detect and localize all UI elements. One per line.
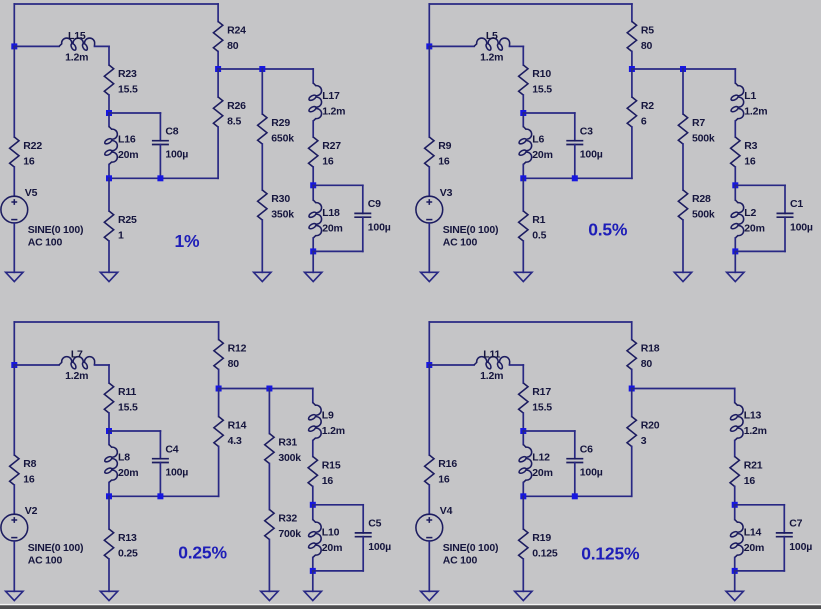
svg-text:100µ: 100µ (789, 541, 812, 553)
inductor L10 (309, 520, 322, 558)
svg-text:16: 16 (744, 155, 756, 167)
junction (216, 386, 222, 392)
svg-text:16: 16 (322, 475, 334, 487)
junction (215, 66, 221, 72)
ground (100, 591, 117, 600)
resistor R26 (213, 97, 222, 127)
wire (522, 46, 524, 65)
wire (734, 505, 736, 520)
svg-text:L11: L11 (483, 348, 500, 360)
svg-text:100µ: 100µ (580, 149, 603, 161)
wire (682, 69, 684, 114)
svg-text:1.2m: 1.2m (480, 52, 503, 64)
wire (362, 185, 364, 213)
svg-text:R10: R10 (532, 68, 551, 80)
svg-text:16: 16 (744, 475, 756, 487)
wire (574, 463, 576, 497)
wire (522, 365, 524, 383)
junction (310, 182, 316, 188)
svg-text:0.5: 0.5 (532, 229, 546, 241)
svg-text:350k: 350k (271, 208, 294, 220)
inductor L13 (730, 403, 743, 441)
inductor L9 (309, 403, 322, 441)
svg-text:1.2m: 1.2m (480, 370, 503, 382)
resistor R3 (731, 137, 740, 167)
svg-text:15.5: 15.5 (118, 401, 138, 413)
svg-text:15.5: 15.5 (532, 83, 552, 95)
wire (312, 69, 314, 83)
wire (159, 113, 161, 141)
svg-text:R28: R28 (692, 193, 711, 205)
svg-text:R15: R15 (322, 459, 341, 471)
svg-text:300k: 300k (278, 452, 301, 464)
wire (14, 45, 59, 47)
ground (254, 272, 271, 281)
wire (217, 52, 219, 70)
svg-text:80: 80 (227, 40, 239, 52)
wire (108, 113, 110, 127)
inductor L7 (59, 357, 95, 369)
capacitor C4 (152, 459, 169, 463)
svg-text:C7: C7 (789, 518, 802, 530)
wire (218, 370, 220, 389)
svg-text:R3: R3 (744, 140, 757, 152)
wire (784, 217, 786, 251)
wire (109, 430, 160, 432)
svg-text:C8: C8 (165, 125, 178, 137)
inductor L11 (474, 357, 510, 369)
svg-text:20m: 20m (118, 149, 138, 161)
wire (784, 185, 786, 213)
svg-text:C4: C4 (165, 443, 178, 455)
svg-text:V2: V2 (25, 505, 38, 517)
ground (6, 272, 23, 281)
inductor L18 (309, 200, 322, 238)
svg-text:C6: C6 (580, 443, 593, 455)
svg-text:R26: R26 (227, 100, 246, 112)
wire (313, 570, 363, 572)
wire (13, 46, 15, 137)
junction (629, 66, 635, 72)
junction (259, 66, 265, 72)
wire (14, 321, 218, 323)
wire (13, 223, 15, 272)
resistor R1 (519, 211, 528, 241)
voltage source V5 (1, 196, 28, 223)
resistor R19 (519, 529, 528, 559)
wire (217, 127, 219, 178)
resistor R8 (10, 455, 19, 485)
wire (108, 241, 110, 272)
resistor R17 (519, 383, 528, 413)
resistor R13 (104, 529, 113, 559)
inductor L1 (731, 83, 744, 121)
wire (428, 167, 430, 196)
wire (631, 370, 633, 389)
wire (108, 165, 110, 179)
capacitor C5 (355, 533, 372, 537)
wire (13, 541, 15, 591)
junction (157, 493, 163, 499)
svg-text:L6: L6 (532, 134, 544, 146)
svg-text:V4: V4 (440, 505, 453, 517)
junction (732, 568, 738, 574)
wire (734, 441, 736, 457)
wire (574, 431, 576, 459)
svg-text:16: 16 (438, 155, 450, 167)
svg-text:R16: R16 (438, 458, 457, 470)
ground (261, 591, 278, 600)
svg-text:AC 100: AC 100 (443, 555, 478, 567)
svg-text:500k: 500k (692, 132, 715, 144)
resistor R11 (104, 383, 113, 413)
svg-text:1%: 1% (175, 231, 201, 251)
resistor R22 (10, 137, 19, 167)
wire (735, 184, 785, 186)
wire (510, 45, 524, 47)
wire (522, 483, 524, 497)
wire (108, 483, 110, 497)
inductor L14 (730, 520, 743, 558)
wire (219, 388, 313, 390)
wire (218, 68, 313, 70)
capacitor C6 (566, 459, 583, 463)
ground (515, 272, 532, 281)
wire (312, 487, 314, 505)
inductor L8 (105, 445, 118, 483)
svg-text:0.25%: 0.25% (178, 542, 227, 562)
svg-text:SINE(0 100): SINE(0 100) (28, 542, 84, 554)
wire (159, 145, 161, 179)
junction (106, 428, 112, 434)
svg-text:SINE(0 100): SINE(0 100) (28, 224, 84, 236)
svg-text:R5: R5 (641, 24, 654, 36)
wire (14, 364, 59, 366)
svg-text:R18: R18 (641, 342, 660, 354)
resistor R10 (519, 65, 528, 95)
resistor R31 (265, 434, 274, 464)
wire (429, 3, 632, 5)
wire (522, 431, 524, 445)
wire (108, 46, 110, 65)
wire (312, 251, 314, 272)
junction (426, 43, 432, 49)
wire (13, 365, 15, 455)
resistor R14 (214, 417, 223, 447)
junction (157, 175, 163, 181)
svg-text:20m: 20m (322, 542, 342, 554)
voltage source V3 (416, 196, 443, 223)
wire (428, 485, 430, 514)
junction (572, 493, 578, 499)
wire (312, 558, 314, 571)
wire (312, 571, 314, 591)
wire (159, 463, 161, 497)
svg-text:20m: 20m (118, 467, 138, 479)
ground (6, 591, 23, 600)
inductor L5 (474, 38, 510, 50)
wire (13, 4, 15, 46)
wire (428, 365, 430, 455)
svg-text:20m: 20m (532, 149, 552, 161)
svg-text:L2: L2 (744, 207, 756, 219)
wire (735, 250, 785, 252)
svg-text:20m: 20m (744, 223, 764, 235)
wire (312, 238, 314, 251)
wire (428, 4, 430, 46)
resistor R18 (627, 340, 636, 370)
svg-text:16: 16 (23, 473, 35, 485)
junction (310, 502, 316, 508)
capacitor C8 (152, 141, 169, 145)
svg-text:0.25: 0.25 (118, 547, 138, 559)
svg-text:0.125%: 0.125% (581, 543, 640, 563)
wire (313, 504, 363, 506)
wire (734, 69, 736, 83)
resistor R15 (308, 457, 317, 487)
wire (631, 52, 633, 70)
wire (108, 413, 110, 431)
svg-text:L13: L13 (744, 410, 762, 422)
junction (520, 110, 526, 116)
wire (522, 413, 524, 431)
wire (109, 177, 218, 179)
svg-text:100µ: 100µ (368, 541, 391, 553)
svg-text:R13: R13 (118, 532, 137, 544)
wire (734, 121, 736, 137)
junction (11, 43, 17, 49)
svg-text:R31: R31 (278, 436, 297, 448)
wire (268, 389, 270, 434)
resistor R30 (258, 190, 267, 220)
svg-text:1.2m: 1.2m (322, 425, 345, 437)
inductor L12 (519, 445, 532, 483)
svg-text:4.3: 4.3 (228, 435, 242, 447)
capacitor C9 (354, 213, 371, 217)
wire (109, 112, 160, 114)
wire (429, 364, 474, 366)
junction (106, 110, 112, 116)
capacitor C1 (777, 213, 794, 217)
wire (631, 69, 633, 97)
wire (261, 69, 263, 114)
svg-text:R22: R22 (23, 140, 42, 152)
wire (631, 4, 633, 22)
svg-text:80: 80 (641, 358, 653, 370)
wire (268, 464, 270, 510)
junction (732, 182, 738, 188)
wire (13, 322, 15, 365)
wire (783, 505, 785, 533)
wire (734, 558, 736, 571)
capacitor C7 (776, 533, 793, 537)
svg-text:1.2m: 1.2m (744, 425, 767, 437)
svg-text:650k: 650k (271, 132, 294, 144)
junction (629, 386, 635, 392)
wire (734, 251, 736, 272)
svg-text:3: 3 (641, 435, 647, 447)
wire (313, 184, 363, 186)
resistor R21 (730, 457, 739, 487)
wire (108, 496, 110, 529)
svg-text:R24: R24 (227, 24, 246, 36)
wire (631, 127, 633, 178)
wire (261, 144, 263, 190)
wire (522, 113, 524, 127)
wire (312, 121, 314, 137)
svg-text:15.5: 15.5 (118, 83, 138, 95)
svg-text:1.2m: 1.2m (65, 52, 88, 64)
wire (428, 322, 430, 365)
svg-text:R8: R8 (23, 458, 36, 470)
wire (522, 95, 524, 113)
wire (734, 185, 736, 200)
capacitor C3 (566, 141, 583, 145)
svg-text:R14: R14 (228, 419, 247, 431)
wire (312, 505, 314, 520)
svg-text:R23: R23 (118, 68, 137, 80)
svg-text:L1: L1 (744, 90, 756, 102)
svg-text:6: 6 (641, 115, 647, 127)
voltage source V2 (1, 514, 28, 541)
resistor R29 (258, 114, 267, 144)
svg-text:R17: R17 (532, 386, 551, 398)
wire (734, 167, 736, 185)
wire (428, 46, 430, 137)
wire (632, 68, 735, 70)
inductor L16 (105, 127, 118, 165)
svg-text:L8: L8 (118, 452, 130, 464)
svg-text:R12: R12 (228, 342, 247, 354)
wire (523, 177, 632, 179)
wire (428, 541, 430, 591)
svg-text:R19: R19 (532, 532, 551, 544)
junction (520, 493, 526, 499)
ground (727, 272, 744, 281)
wire (108, 559, 110, 591)
wire (217, 69, 219, 97)
svg-text:100µ: 100µ (368, 221, 391, 233)
svg-text:R29: R29 (271, 117, 290, 129)
svg-text:R1: R1 (532, 214, 545, 226)
svg-text:1.2m: 1.2m (322, 106, 345, 118)
svg-text:100µ: 100µ (580, 467, 603, 479)
svg-text:1.2m: 1.2m (65, 370, 88, 382)
ground (304, 591, 321, 600)
wire (734, 238, 736, 251)
wire (522, 165, 524, 179)
svg-text:AC 100: AC 100 (28, 555, 63, 567)
wire (313, 250, 363, 252)
junction (310, 248, 316, 254)
junction (732, 502, 738, 508)
wire (95, 364, 110, 366)
svg-text:R11: R11 (118, 386, 136, 398)
wire (312, 185, 314, 200)
wire (510, 364, 524, 366)
svg-text:80: 80 (228, 358, 240, 370)
svg-text:R25: R25 (118, 214, 137, 226)
svg-text:16: 16 (23, 155, 35, 167)
wire (522, 496, 524, 529)
svg-text:L14: L14 (744, 527, 762, 539)
wire (734, 389, 736, 403)
junction (680, 66, 686, 72)
resistor R20 (627, 417, 636, 447)
svg-text:L5: L5 (486, 30, 498, 42)
junction (572, 175, 578, 181)
wire (631, 447, 633, 497)
svg-text:R27: R27 (322, 140, 341, 152)
svg-text:C3: C3 (580, 125, 593, 137)
wire (108, 365, 110, 383)
junction (426, 362, 432, 368)
resistor R32 (265, 510, 274, 540)
junction (520, 428, 526, 434)
svg-text:1.2m: 1.2m (744, 106, 767, 118)
svg-text:C5: C5 (368, 518, 381, 530)
wire (312, 441, 314, 457)
ground (674, 272, 691, 281)
svg-text:100µ: 100µ (165, 467, 188, 479)
wire (523, 495, 631, 497)
wire (632, 388, 735, 390)
wire (312, 389, 314, 403)
wire (574, 145, 576, 179)
resistor R27 (309, 137, 318, 167)
svg-text:R32: R32 (278, 512, 297, 524)
svg-text:R2: R2 (641, 100, 654, 112)
inductor L15 (59, 38, 95, 50)
wire (217, 4, 219, 22)
svg-text:20m: 20m (744, 542, 764, 554)
svg-text:C9: C9 (368, 198, 381, 210)
wire (218, 447, 220, 497)
wire (734, 571, 736, 591)
resistor R7 (678, 114, 687, 144)
wire (682, 144, 684, 190)
svg-text:SINE(0 100): SINE(0 100) (443, 224, 499, 236)
inductor L2 (731, 200, 744, 238)
wire (429, 321, 631, 323)
junction (520, 175, 526, 181)
wire (735, 570, 785, 572)
wire (523, 112, 575, 114)
svg-text:R9: R9 (438, 140, 451, 152)
wire (108, 431, 110, 445)
svg-text:0.125: 0.125 (532, 547, 558, 559)
resistor R28 (678, 190, 687, 220)
wire (682, 220, 684, 272)
wire (95, 45, 110, 47)
junction (11, 362, 17, 368)
voltage source V4 (416, 514, 443, 541)
resistor R25 (104, 211, 113, 241)
wire (268, 540, 270, 592)
svg-text:L9: L9 (322, 410, 334, 422)
resistor R2 (627, 97, 636, 127)
junction (310, 568, 316, 574)
svg-text:16: 16 (438, 473, 450, 485)
svg-text:L12: L12 (532, 452, 550, 464)
svg-text:L16: L16 (118, 134, 136, 146)
wire (261, 220, 263, 272)
svg-text:R21: R21 (744, 459, 763, 471)
wire (362, 505, 364, 533)
svg-text:SINE(0 100): SINE(0 100) (443, 542, 499, 554)
wire (631, 389, 633, 417)
junction (732, 248, 738, 254)
